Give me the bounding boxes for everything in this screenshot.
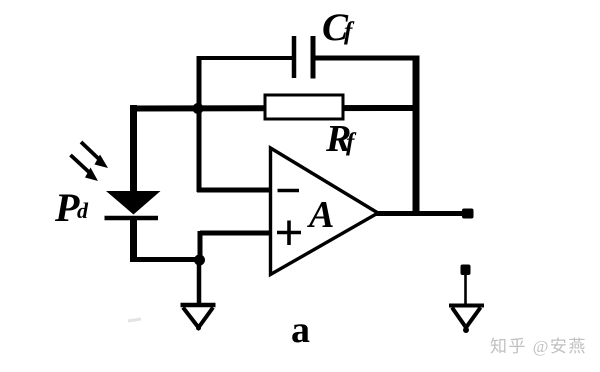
wire: feedback left vertical — [197, 56, 202, 192]
op-amp A — [271, 148, 379, 275]
photodiode Pd — [105, 105, 161, 262]
wire: diode bottom to junction — [131, 257, 202, 262]
svg-text:f: f — [346, 129, 357, 156]
capacitor Cf — [294, 36, 313, 79]
terminal: output — [462, 209, 474, 219]
resistor Rf — [265, 95, 343, 119]
node: ground junction — [194, 255, 205, 266]
wire: feedback right vertical — [413, 56, 420, 217]
wire: inverting input branch — [197, 188, 272, 193]
svg-text:a: a — [291, 309, 310, 351]
svg-text:d: d — [77, 198, 89, 223]
ground (left) — [181, 305, 216, 331]
wire: feedback top rail — [197, 56, 420, 60]
terminal: reference top — [461, 265, 471, 276]
ground (right) — [449, 306, 484, 334]
wire: non-inverting input branch — [200, 231, 272, 262]
node: feedback junction — [193, 103, 204, 114]
svg-text:知乎 @安燕: 知乎 @安燕 — [490, 337, 587, 356]
label Pd — [54, 185, 89, 230]
light arrow 2 — [71, 155, 99, 181]
wire: output — [376, 211, 472, 216]
light arrow 1 — [81, 142, 108, 168]
wire: resistor rail — [130, 105, 416, 112]
stray mark — [128, 319, 141, 321]
label Rf — [325, 118, 357, 160]
label Cf — [322, 6, 355, 49]
wire: ground stub left — [197, 258, 202, 304]
svg-text:A: A — [307, 194, 334, 236]
wire: ground stub right — [464, 274, 467, 305]
svg-text:f: f — [344, 18, 355, 45]
